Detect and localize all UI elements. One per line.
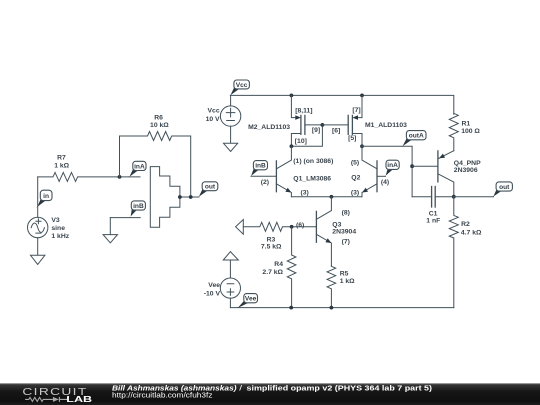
ground below Vcc source <box>224 126 238 151</box>
svg-text:http://circuitlab.com/cfuh3fz: http://circuitlab.com/cfuh3fz <box>112 392 213 399</box>
node junction M2 drain <box>290 144 294 148</box>
svg-text:R4: R4 <box>274 261 283 268</box>
wire out <box>454 196 494 198</box>
svg-text:in: in <box>43 193 49 200</box>
transistor Q3 2N3904 <box>315 211 317 242</box>
wire bottom rail Vee <box>230 307 453 309</box>
ground rotated left at R3 <box>236 220 244 235</box>
svg-text:4.7 kΩ: 4.7 kΩ <box>461 229 482 236</box>
svg-text:LAB: LAB <box>66 394 92 404</box>
node junction R4 bottom <box>289 306 293 310</box>
net flag inA left <box>128 161 146 177</box>
svg-text:(7): (7) <box>342 239 350 246</box>
svg-text:1 kHz: 1 kHz <box>51 233 69 240</box>
net flag out left <box>197 182 218 198</box>
transistor M1_ALD1103 <box>358 95 362 117</box>
net flag Vee <box>237 294 257 309</box>
net flag inA at Q2 <box>384 160 399 177</box>
svg-text:outA: outA <box>409 133 424 140</box>
resistor R7 1 kOhm <box>38 172 140 181</box>
svg-text:V3: V3 <box>51 217 60 224</box>
svg-text:(4): (4) <box>381 179 389 186</box>
svg-text:1 kΩ: 1 kΩ <box>54 162 69 169</box>
svg-text:7.5 kΩ: 7.5 kΩ <box>261 244 282 251</box>
svg-text:(5): (5) <box>351 159 359 166</box>
svg-text:inA: inA <box>134 163 145 170</box>
op-amp X1 simplified opamp block <box>150 167 180 228</box>
svg-text:Vcc: Vcc <box>236 82 248 89</box>
node junction gate wire <box>321 123 325 127</box>
svg-text:R2: R2 <box>461 221 470 228</box>
node junction inA feedback <box>118 175 122 179</box>
svg-text:Vcc: Vcc <box>208 107 220 114</box>
svg-text:(8): (8) <box>342 209 350 216</box>
net flag Vcc <box>229 80 249 96</box>
svg-text:R7: R7 <box>57 155 66 162</box>
resistor R5 1 kOhm <box>327 266 336 307</box>
svg-text:(6): (6) <box>296 222 304 229</box>
node junction top rail M1 <box>360 94 364 98</box>
svg-text:1 kΩ: 1 kΩ <box>340 278 355 285</box>
svg-text:Q2: Q2 <box>351 174 360 181</box>
svg-text:inB: inB <box>133 203 144 210</box>
svg-text:out: out <box>205 184 216 191</box>
wire common emitters Q1 Q2 <box>291 196 362 198</box>
voltage source V2 Vee -10 V <box>229 260 231 278</box>
node junction top rail M2 <box>290 94 294 98</box>
svg-text:(3): (3) <box>301 190 309 197</box>
svg-text:[7]: [7] <box>352 107 360 114</box>
node junction R5 bottom <box>330 306 334 310</box>
svg-text:10 kΩ: 10 kΩ <box>150 122 169 129</box>
transistor M2_ALD1103 <box>291 95 295 117</box>
wire gate M1 to gate M2 <box>322 124 348 126</box>
svg-text:C1: C1 <box>429 210 438 217</box>
svg-text:out: out <box>499 184 510 191</box>
node junction R6 right <box>189 195 193 199</box>
resistor R3 7.5 kOhm <box>243 222 291 231</box>
svg-text:1 nF: 1 nF <box>426 218 440 225</box>
svg-text:M2_ALD1103: M2_ALD1103 <box>248 124 290 131</box>
net flag outA <box>401 131 426 148</box>
svg-text:[8,11]: [8,11] <box>295 108 312 115</box>
transistor Q4_PNP 2N3906 <box>437 151 439 182</box>
net flag out right <box>492 182 513 198</box>
svg-text:simplified opamp v2 (PHYS 364: simplified opamp v2 (PHYS 364 lab 7 part… <box>247 385 433 392</box>
svg-text:R6: R6 <box>154 114 163 121</box>
footer bar <box>0 383 540 405</box>
node junction M1 drain outA <box>360 144 364 148</box>
wire op-amp output <box>180 196 199 198</box>
svg-text:R5: R5 <box>340 271 349 278</box>
svg-text:100 Ω: 100 Ω <box>461 128 480 135</box>
wire top rail Vcc <box>231 95 454 114</box>
resistor R4 2.7 kOhm <box>287 227 296 308</box>
svg-text:-10 V: -10 V <box>204 291 221 298</box>
svg-text:R3: R3 <box>267 237 276 244</box>
svg-text:(1) (on 3086): (1) (on 3086) <box>293 158 333 165</box>
svg-text:Q1_LM3086: Q1_LM3086 <box>293 175 331 182</box>
transistor Q1_LM3086 <box>275 161 277 192</box>
node junction common emitter <box>330 195 334 199</box>
svg-text:2.7 kΩ: 2.7 kΩ <box>262 269 283 276</box>
svg-text:inA: inA <box>387 162 398 169</box>
svg-text:Vee: Vee <box>245 296 257 303</box>
svg-text:[5]: [5] <box>348 135 356 142</box>
svg-text:Vee: Vee <box>208 282 220 289</box>
wire inB input <box>110 217 140 219</box>
wire outA from M1 drain to Q4 base column <box>362 146 412 196</box>
svg-text:inB: inB <box>255 163 266 170</box>
svg-text:[9]: [9] <box>312 127 320 134</box>
ground below V3 <box>31 238 45 265</box>
net flag inB at Q1 <box>250 161 268 178</box>
voltage source V3 sine 1 kHz <box>37 177 39 217</box>
ground rotated up above Vee source <box>223 252 238 260</box>
svg-text:10 V: 10 V <box>206 116 220 123</box>
svg-text:Q3: Q3 <box>332 221 341 228</box>
svg-text:R1: R1 <box>462 121 471 128</box>
svg-text:Q4_PNP: Q4_PNP <box>454 160 481 167</box>
net flag inB left <box>129 201 146 219</box>
logo resistor-diode glyph <box>25 397 67 402</box>
svg-text:2N3906: 2N3906 <box>454 167 478 174</box>
svg-text:2N3904: 2N3904 <box>332 228 356 235</box>
resistor R2 4.7 kOhm <box>449 197 458 308</box>
node junction out <box>452 195 456 199</box>
svg-text:(2): (2) <box>261 179 269 186</box>
voltage source V1 Vcc 10 V <box>230 95 232 106</box>
resistor R1 100 Ohm <box>449 113 458 150</box>
resistor R6 10 kOhm feedback <box>120 132 191 198</box>
node junction op-amp output <box>178 195 182 199</box>
transistor Q2 <box>376 161 378 192</box>
node junction Q4 base <box>410 164 414 168</box>
svg-text:[10]: [10] <box>295 138 307 145</box>
svg-text:[6]: [6] <box>332 127 340 134</box>
capacitor C1 1 nF <box>412 196 432 198</box>
svg-text:(3): (3) <box>351 190 359 197</box>
ground at inB input <box>103 218 117 243</box>
wire M2 gate to drain diode connection <box>291 125 322 146</box>
node junction R3 R4 Q3 base <box>290 225 294 229</box>
net flag in <box>36 190 52 208</box>
svg-text:sine: sine <box>51 225 65 232</box>
svg-text:M1_ALD1103: M1_ALD1103 <box>365 122 407 129</box>
